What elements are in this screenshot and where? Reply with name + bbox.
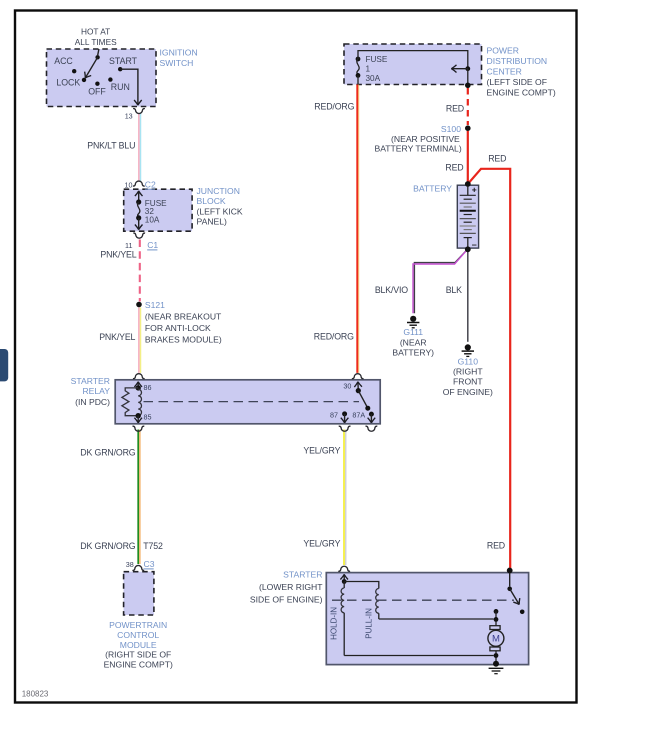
svg-text:FOR ANTI-LOCK: FOR ANTI-LOCK <box>145 323 211 333</box>
svg-text:BATTERY): BATTERY) <box>392 348 434 358</box>
svg-text:(RIGHT SIDE OF: (RIGHT SIDE OF <box>105 650 171 660</box>
svg-text:–: – <box>472 239 477 249</box>
svg-text:PNK/YEL: PNK/YEL <box>100 249 136 259</box>
svg-text:OF ENGINE): OF ENGINE) <box>443 387 493 397</box>
svg-text:G111: G111 <box>403 327 423 337</box>
svg-text:RELAY: RELAY <box>82 386 110 396</box>
svg-text:POWERTRAIN: POWERTRAIN <box>109 620 167 630</box>
svg-text:ENGINE COMPT): ENGINE COMPT) <box>487 88 556 98</box>
svg-text:S100: S100 <box>441 124 461 134</box>
svg-text:30A: 30A <box>366 74 381 83</box>
svg-text:C2: C2 <box>145 179 156 189</box>
svg-text:86: 86 <box>144 383 152 392</box>
svg-text:FUSE: FUSE <box>366 55 388 64</box>
svg-text:180823: 180823 <box>22 690 49 699</box>
svg-text:ENGINE COMPT): ENGINE COMPT) <box>104 660 173 670</box>
svg-text:START: START <box>109 56 138 66</box>
svg-text:BATTERY: BATTERY <box>413 183 452 193</box>
svg-text:10: 10 <box>125 180 133 189</box>
svg-text:13: 13 <box>125 111 133 120</box>
svg-text:(LOWER RIGHT: (LOWER RIGHT <box>259 582 323 592</box>
svg-text:85: 85 <box>144 413 152 422</box>
svg-text:YEL/GRY: YEL/GRY <box>303 538 340 548</box>
svg-text:(LEFT SIDE OF: (LEFT SIDE OF <box>487 77 547 87</box>
svg-text:(NEAR: (NEAR <box>400 337 427 347</box>
svg-text:ACC: ACC <box>54 56 73 66</box>
svg-text:STARTER: STARTER <box>283 570 322 580</box>
svg-text:PNK/LT BLU: PNK/LT BLU <box>87 141 135 151</box>
svg-text:87A: 87A <box>352 411 365 420</box>
svg-text:FRONT: FRONT <box>453 377 483 387</box>
svg-text:OFF: OFF <box>88 86 106 96</box>
svg-text:BLOCK: BLOCK <box>197 196 226 206</box>
svg-text:11: 11 <box>125 241 132 250</box>
svg-text:C1: C1 <box>147 240 158 250</box>
svg-text:T752: T752 <box>143 541 163 551</box>
svg-text:RED: RED <box>487 541 505 551</box>
svg-text:(RIGHT: (RIGHT <box>453 367 483 377</box>
svg-text:DK GRN/ORG: DK GRN/ORG <box>80 541 136 551</box>
svg-text:C3: C3 <box>144 559 155 569</box>
svg-text:PULL-IN: PULL-IN <box>364 608 373 639</box>
svg-text:CENTER: CENTER <box>487 67 522 77</box>
svg-text:(NEAR POSITIVE: (NEAR POSITIVE <box>391 134 460 144</box>
svg-text:BLK/VIO: BLK/VIO <box>375 285 408 295</box>
svg-text:87: 87 <box>330 411 338 420</box>
svg-text:RED/ORG: RED/ORG <box>314 102 354 112</box>
svg-text:(LEFT KICK: (LEFT KICK <box>197 206 243 216</box>
svg-text:30: 30 <box>343 382 351 391</box>
svg-text:ALL TIMES: ALL TIMES <box>75 37 117 47</box>
svg-text:RED: RED <box>446 104 464 114</box>
svg-text:S121: S121 <box>145 300 165 310</box>
svg-text:HOLD-IN: HOLD-IN <box>330 607 339 640</box>
svg-text:RED: RED <box>488 153 506 163</box>
svg-text:DK GRN/ORG: DK GRN/ORG <box>80 447 136 457</box>
svg-text:G110: G110 <box>458 357 479 367</box>
svg-text:POWER: POWER <box>487 46 519 56</box>
svg-text:(NEAR BREAKOUT: (NEAR BREAKOUT <box>145 312 222 322</box>
svg-text:BATTERY TERMINAL): BATTERY TERMINAL) <box>374 143 461 153</box>
svg-text:38: 38 <box>126 560 134 569</box>
svg-text:PANEL): PANEL) <box>197 217 228 227</box>
svg-text:+: + <box>472 185 477 195</box>
svg-text:JUNCTION: JUNCTION <box>197 186 240 196</box>
svg-text:1: 1 <box>366 64 371 73</box>
svg-text:DISTRIBUTION: DISTRIBUTION <box>487 56 548 66</box>
svg-text:BLK: BLK <box>446 285 462 295</box>
svg-text:YEL/GRY: YEL/GRY <box>303 445 340 455</box>
svg-text:PNK/YEL: PNK/YEL <box>99 332 135 342</box>
svg-text:SWITCH: SWITCH <box>160 58 194 68</box>
svg-text:RED/ORG: RED/ORG <box>314 332 354 342</box>
svg-text:RUN: RUN <box>111 82 130 92</box>
svg-text:M: M <box>492 634 500 645</box>
svg-text:STARTER: STARTER <box>71 376 110 386</box>
svg-text:(IN PDC): (IN PDC) <box>75 397 110 407</box>
svg-text:LOCK: LOCK <box>56 77 80 87</box>
svg-text:RED: RED <box>445 163 463 173</box>
svg-text:MODULE: MODULE <box>120 640 157 650</box>
svg-text:10A: 10A <box>145 215 160 224</box>
svg-text:SIDE OF ENGINE): SIDE OF ENGINE) <box>250 594 323 604</box>
svg-text:CONTROL: CONTROL <box>117 630 159 640</box>
svg-text:IGNITION: IGNITION <box>160 48 198 58</box>
svg-text:HOT AT: HOT AT <box>81 27 110 37</box>
svg-text:BRAKES MODULE): BRAKES MODULE) <box>145 335 222 345</box>
